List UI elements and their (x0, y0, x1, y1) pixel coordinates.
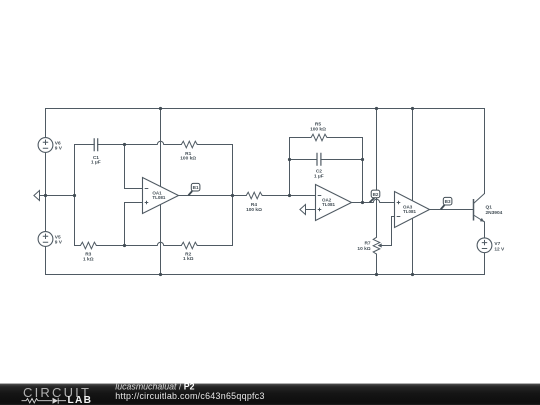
wire R5 branch right vertical (362, 138, 364, 203)
footer logo diode (53, 398, 59, 404)
svg-text:TL081: TL081 (152, 195, 166, 200)
svg-text:R7: R7 (364, 241, 370, 247)
resistor R1 (181, 141, 197, 148)
potentiometer R7 body (373, 237, 380, 254)
op-amp OA2 (316, 185, 352, 221)
wire OA3 output to Q1 base (430, 209, 474, 211)
wire minus branch OA1 (125, 145, 143, 189)
wire V7 bottom to bottom rail (484, 253, 486, 275)
wire R7 rail top (376, 109, 378, 238)
capacitor C2 plates (317, 153, 321, 166)
op-amp OA3 (395, 192, 430, 228)
footer logo squiggle resistor (22, 399, 53, 403)
V5 plus minus signs (43, 234, 48, 243)
svg-text:2N3904: 2N3904 (486, 210, 503, 216)
wire bottom rail (46, 274, 485, 276)
wire OA1 output row (179, 195, 316, 197)
wire V6 bottom to ground row (45, 152, 47, 231)
svg-text:http://circuitlab.com/c643n65q: http://circuitlab.com/c643n65qqpfc3 (115, 391, 264, 401)
wire left inner vertical (74, 145, 76, 246)
wire R7 wiper to OA3 minus (381, 217, 395, 246)
svg-text:100 kΩ: 100 kΩ (310, 127, 326, 133)
svg-text:9 V: 9 V (55, 239, 63, 245)
flag B2 (370, 190, 380, 202)
wire R5 branch left vertical (289, 138, 291, 196)
resistor R3 (80, 242, 96, 249)
wire R5 row (290, 137, 363, 139)
wire V5 bottom to bottom rail (45, 246, 47, 274)
wire OA1 V+ stub (160, 109, 162, 187)
wire R1 to output node corner (197, 145, 232, 196)
svg-text:1 µF: 1 µF (314, 173, 324, 179)
svg-text:Q1: Q1 (486, 205, 493, 211)
wire plus branch OA1 (125, 203, 143, 246)
svg-text:100 kΩ: 100 kΩ (246, 207, 262, 213)
V7 plus minus signs (482, 240, 487, 249)
svg-text:TL081: TL081 (403, 209, 417, 214)
wire OA3 V+ stub (412, 109, 414, 201)
wire R3 R2 feedback row with hop over OA1 V- stub (75, 196, 233, 246)
svg-text:1 kΩ: 1 kΩ (183, 256, 194, 262)
svg-text:B3: B3 (445, 199, 451, 204)
voltage source V6 (38, 138, 53, 153)
wire OA3 V- stub (412, 218, 414, 274)
footer bar (0, 384, 540, 405)
ground symbol OA2 plus (300, 205, 306, 215)
flag B1 (188, 183, 200, 195)
svg-text:9 V: 9 V (55, 145, 63, 151)
svg-text:1 kΩ: 1 kΩ (83, 256, 94, 262)
svg-text:10 kΩ: 10 kΩ (357, 246, 370, 252)
svg-text:12 V: 12 V (494, 247, 505, 253)
svg-text:LAB: LAB (68, 395, 93, 405)
V6 plus minus signs (43, 140, 48, 149)
wire OA2 ground stub (306, 209, 316, 211)
wire C2 row (290, 159, 363, 161)
svg-text:100 kΩ: 100 kΩ (180, 156, 196, 162)
svg-text:B2: B2 (373, 192, 379, 197)
ground wire main (40, 195, 75, 197)
wire R7 rail bottom (376, 254, 378, 275)
wire Q1 collector to top rail (484, 109, 486, 194)
wire OA1 V- stub (160, 205, 162, 275)
ground symbol main (34, 191, 40, 201)
wire top rail (46, 108, 485, 110)
potentiometer R7 wiper arrow (378, 243, 382, 247)
flag B3 (441, 197, 452, 209)
svg-text:B1: B1 (193, 185, 199, 190)
transistor Q1 (474, 194, 485, 222)
voltage source V5 (38, 232, 53, 247)
wire C1 row with hop over OA1 V+ stub (75, 141, 182, 144)
svg-text:1 µF: 1 µF (91, 160, 101, 166)
voltage source V7 (477, 238, 492, 253)
svg-text:V7: V7 (494, 241, 500, 247)
wire OA2 output row with hop over R7 rail (352, 199, 395, 202)
wire left rail top segment (45, 109, 47, 138)
svg-text:TL081: TL081 (322, 202, 336, 207)
resistor R4 (246, 192, 262, 199)
resistor R5 (311, 134, 327, 141)
op-amp OA1 (143, 178, 179, 214)
resistor R2 (181, 242, 197, 249)
wire Q1 emitter to V7 (484, 222, 486, 238)
capacitor C1 plates (94, 138, 98, 151)
